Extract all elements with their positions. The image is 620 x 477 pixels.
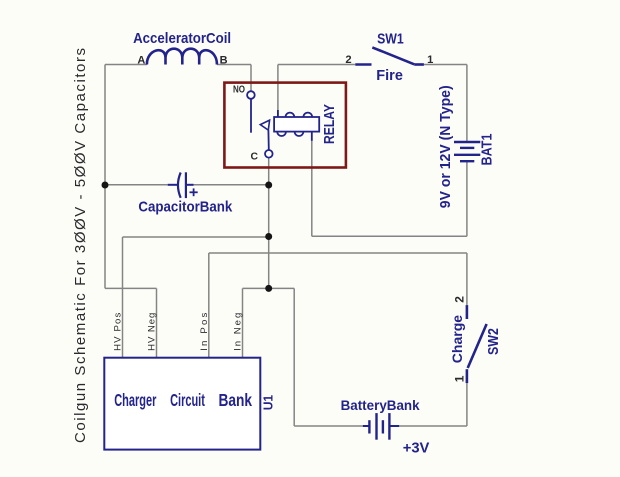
svg-text:C: C (250, 151, 258, 162)
svg-text:BatteryBank: BatteryBank (341, 398, 420, 413)
svg-text:9V or 12V (N Type): 9V or 12V (N Type) (438, 85, 454, 208)
svg-text:SW2: SW2 (485, 328, 501, 355)
svg-text:HV Neg: HV Neg (147, 313, 158, 351)
svg-text:RELAY: RELAY (321, 104, 338, 144)
svg-text:Circuit: Circuit (170, 391, 205, 410)
svg-text:+3V: +3V (403, 440, 430, 456)
svg-text:Coilgun Schematic For 3ØØV - 5: Coilgun Schematic For 3ØØV - 5ØØV Capaci… (72, 48, 89, 443)
svg-text:AcceleratorCoil: AcceleratorCoil (133, 29, 231, 46)
svg-text:HV Pos: HV Pos (113, 312, 124, 350)
svg-text:1: 1 (427, 54, 433, 66)
svg-text:2: 2 (345, 54, 351, 66)
svg-text:1: 1 (453, 375, 467, 382)
svg-text:BAT1: BAT1 (477, 133, 494, 165)
svg-text:CapacitorBank: CapacitorBank (138, 199, 232, 216)
svg-text:2: 2 (453, 296, 467, 303)
svg-text:NO: NO (233, 83, 245, 94)
svg-text:In Pos: In Pos (199, 312, 210, 350)
svg-text:U1: U1 (261, 395, 276, 410)
svg-text:Fire: Fire (376, 68, 403, 84)
svg-text:In Neg: In Neg (233, 313, 244, 351)
svg-text:A: A (137, 55, 145, 67)
svg-text:B: B (220, 55, 228, 67)
svg-text:Charge: Charge (449, 315, 465, 363)
svg-text:Charger: Charger (114, 391, 156, 410)
svg-text:SW1: SW1 (377, 30, 404, 46)
svg-text:Bank: Bank (219, 391, 253, 410)
